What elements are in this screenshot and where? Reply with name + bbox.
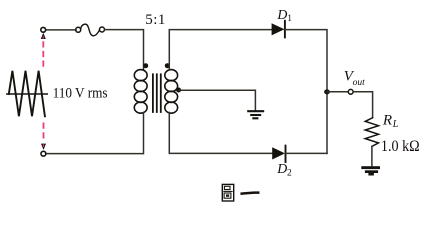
terminal Vout <box>348 89 353 94</box>
svg-text:5:1: 5:1 <box>145 12 166 28</box>
svg-text:D: D <box>276 7 287 22</box>
resistor RL <box>365 118 378 147</box>
wire: fuse to transformer primary top corner <box>105 30 144 70</box>
center tap dot on secondary <box>176 88 181 93</box>
wire: center tap to ground <box>180 90 256 110</box>
AC source waveform <box>7 71 48 117</box>
phasing dot primary <box>143 63 148 68</box>
ground (load, chassis style) <box>361 166 380 175</box>
svg-text:L: L <box>392 119 399 130</box>
wire: junction to Vout terminal <box>327 91 348 93</box>
probe arrow to terminal B <box>41 123 46 150</box>
label D2 <box>276 161 292 178</box>
svg-text:110 V rms: 110 V rms <box>53 86 108 102</box>
caption: figure label "yi" (一) <box>242 193 259 194</box>
diode D1 <box>272 21 285 38</box>
label D1 <box>276 7 292 24</box>
terminal B (bottom input) <box>41 151 46 156</box>
node: output junction <box>324 89 330 94</box>
label RL <box>382 112 399 130</box>
svg-text:1.0 kΩ: 1.0 kΩ <box>381 137 420 155</box>
wire: D2 cathode to output node <box>285 152 327 154</box>
wire top rail: terminal A to fuse <box>46 29 76 31</box>
wire: secondary bottom to D2 anode <box>169 113 272 154</box>
wire: primary bottom to terminal B rail <box>46 113 143 154</box>
probe arrow to terminal A <box>41 33 46 68</box>
svg-text:2: 2 <box>287 168 292 178</box>
svg-text:1: 1 <box>287 14 292 24</box>
transformer core <box>153 74 161 112</box>
wire: Vout terminal to resistor RL <box>353 92 372 118</box>
phasing dot secondary <box>165 63 170 68</box>
wire: D1 cathode to output node, down right rail <box>284 30 327 154</box>
svg-text:out: out <box>353 78 366 88</box>
terminal A (top input) <box>41 27 46 32</box>
fuse F1 <box>76 24 105 36</box>
wire: secondary top to D1 anode <box>169 30 271 70</box>
svg-text:D: D <box>276 161 287 176</box>
transformer T1 secondary winding <box>165 70 178 114</box>
transformer T1 primary winding <box>134 70 147 114</box>
wire: resistor RL to load ground <box>371 146 373 165</box>
label Vout <box>344 69 365 89</box>
ground (center tap) <box>247 111 264 118</box>
caption: figure label "tu" (圖) <box>222 184 233 201</box>
svg-text:R: R <box>382 112 392 128</box>
diode D2 <box>272 146 285 162</box>
